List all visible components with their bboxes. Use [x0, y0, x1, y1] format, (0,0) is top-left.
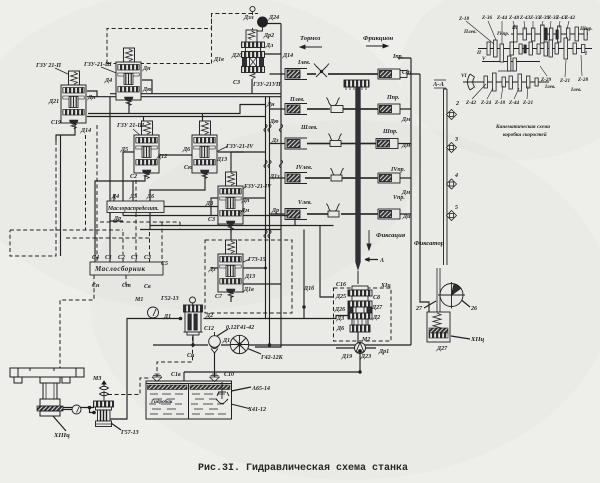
wire: valve U6 right ports to right bus — [264, 24, 281, 55]
svg-text:Др: Др — [271, 208, 279, 214]
cylinder row 3 left — [285, 138, 307, 149]
gear extra i — [509, 76, 512, 89]
gear z18a — [508, 56, 511, 71]
gear extra b — [537, 44, 540, 54]
svg-text:Z-21: Z-21 — [522, 100, 533, 106]
gear extra e — [584, 29, 587, 40]
svg-text:Св: Св — [144, 284, 151, 290]
wire: ladder line from valve V2 zone — [88, 105, 266, 114]
svg-text:Г57-13: Г57-13 — [120, 430, 139, 436]
svg-text:5: 5 — [455, 205, 458, 211]
wire: dashed drains to oil collector — [97, 125, 162, 262]
svg-text:С1в: С1в — [171, 372, 181, 378]
svg-text:Плев.: Плев. — [289, 97, 305, 103]
gear extra g — [519, 44, 522, 54]
valve U3 GZU-21-III — [134, 121, 159, 179]
junction dots — [88, 267, 362, 415]
wire: bed gauge stem — [63, 409, 72, 411]
svg-text:27: 27 — [415, 306, 423, 312]
svg-text:Д24: Д24 — [268, 15, 279, 21]
svg-text:Д14: Д14 — [282, 53, 293, 59]
row 3 coupler — [330, 141, 341, 147]
wire: M2 valve branches — [336, 348, 376, 372]
gear z21b — [573, 43, 576, 54]
svg-text:С8: С8 — [373, 295, 380, 301]
svg-text:Ш: Ш — [511, 25, 518, 31]
wire: valve U1 right port — [87, 91, 110, 97]
svg-text:Z-44: Z-44 — [508, 100, 519, 106]
svg-text:С12: С12 — [204, 326, 214, 332]
svg-text:Д6: Д6 — [146, 194, 154, 200]
svg-text:Рис.3I. Гидравлическая схема с: Рис.3I. Гидравлическая схема станка — [198, 463, 408, 474]
svg-text:Кинематическая схема: Кинематическая схема — [495, 124, 550, 130]
svg-text:Шлев.: Шлев. — [300, 125, 318, 131]
svg-text:Д27: Д27 — [436, 346, 448, 352]
gear z21a — [555, 43, 558, 54]
svg-text:Z-42: Z-42 — [465, 100, 476, 106]
svg-text:Др1: Др1 — [378, 349, 389, 355]
gear z18b — [502, 77, 505, 87]
wire: G73 valve top stem — [230, 226, 232, 241]
svg-text:Фиксатор: Фиксатор — [414, 240, 445, 247]
svg-text:С7: С7 — [215, 294, 223, 300]
row 2 fork — [327, 98, 340, 107]
wire: dashed Ct stub — [125, 275, 127, 287]
svg-text:Сю: Сю — [184, 165, 193, 171]
svg-text:Д6: Д6 — [336, 326, 344, 332]
svg-text:Дп: Дп — [241, 198, 250, 204]
svg-text:Дн: Дн — [266, 102, 275, 108]
svg-text:IVлев.: IVлев. — [295, 165, 313, 171]
svg-text:Д25: Д25 — [335, 294, 346, 300]
svg-text:Д3: Д3 — [336, 316, 344, 322]
svg-text:Д1: Д1 — [222, 338, 230, 344]
gear hub black a — [524, 45, 526, 53]
filter G42-12K — [230, 335, 248, 353]
cylinder row 3 right — [376, 139, 398, 149]
svg-text:А-А: А-А — [432, 81, 445, 88]
wire: valve name leaders — [55, 67, 250, 263]
svg-text:Д26: Д26 — [334, 307, 345, 313]
gear z36 — [494, 40, 498, 57]
selector shaft — [355, 87, 360, 284]
wire: dashed collector outlet — [60, 275, 94, 368]
svg-text:С2: С2 — [118, 255, 125, 261]
svg-text:Д1в: Д1в — [243, 287, 254, 293]
svg-text:Z-18: Z-18 — [458, 16, 469, 22]
A-A section shaft — [434, 80, 447, 265]
wire: left vertical bus pair down — [204, 97, 266, 319]
svg-text:Д6: Д6 — [182, 147, 190, 153]
svg-text:Сн: Сн — [92, 283, 100, 289]
svg-text:Д8: Д8 — [205, 201, 213, 207]
wire: valve U1 bottom drain — [56, 125, 75, 256]
svg-text:Д12: Д12 — [156, 154, 167, 160]
cylinder row 2 left — [285, 104, 307, 115]
wire: row2 rod — [307, 108, 411, 110]
gear z35 — [550, 28, 553, 40]
wire: relief valve drain — [192, 335, 194, 345]
svg-text:Дн: Дн — [142, 66, 151, 72]
fixer valve stack XI — [348, 286, 372, 332]
svg-text:Д27: Д27 — [371, 305, 383, 311]
float valve A65-14 — [216, 382, 229, 404]
gear z42c — [484, 76, 487, 88]
svg-text:Дп: Дп — [87, 95, 96, 101]
svg-text:С1: С1 — [131, 255, 138, 261]
M2 pilot valve — [355, 343, 366, 354]
svg-text:Плев.: Плев. — [463, 29, 477, 35]
svg-text:коробки скоростей: коробки скоростей — [503, 131, 547, 138]
wire: suction to tank — [214, 352, 216, 377]
svg-text:Д23: Д23 — [360, 354, 371, 360]
svg-text:Z-24: Z-24 — [480, 100, 491, 106]
wire: outer right vertical to fixer cylinder — [420, 74, 429, 312]
svg-text:С5: С5 — [161, 261, 168, 267]
svg-text:IVпр.: IVпр. — [390, 167, 406, 173]
svg-text:Д1з: Д1з — [269, 174, 280, 180]
gear z43a — [523, 28, 526, 40]
svg-text:А: А — [379, 258, 384, 264]
svg-text:XIц: XIц — [380, 283, 391, 289]
throttle M3 — [100, 381, 109, 401]
svg-text:Дэл: Дэл — [243, 15, 254, 21]
selector comb — [344, 80, 369, 90]
bevel gear pair — [468, 74, 475, 90]
valve U5 GZU-21-IV — [218, 172, 243, 230]
gear z48 — [514, 26, 518, 42]
wire: right return bus x281 — [255, 24, 281, 348]
wire: valve U3 left port down — [123, 152, 134, 216]
svg-text:Iлев.: Iлев. — [544, 84, 556, 90]
svg-text:Д5: Д5 — [120, 147, 128, 153]
wire: row4 rod — [305, 177, 411, 179]
svg-text:Z-21: Z-21 — [559, 78, 570, 84]
gear small x — [535, 78, 538, 86]
svg-text:Дм: Дм — [401, 143, 410, 149]
gear extra c — [549, 40, 552, 57]
wire: valve U5 top stem — [231, 152, 244, 172]
wire: ladder y225 double — [140, 226, 334, 230]
A-A detent node 4 — [447, 179, 457, 189]
wire: row connectors from bus — [270, 74, 286, 214]
svg-text:Д14: Д14 — [80, 128, 91, 134]
wire: check valve label leader — [217, 329, 228, 336]
wire: valve U4 right port to bus — [218, 151, 266, 153]
wire: G73 valve left port — [211, 268, 231, 302]
svg-text:Г52-13: Г52-13 — [160, 296, 179, 302]
row 5 coupler — [328, 211, 339, 217]
valve U4 GZU-21-IV — [192, 121, 217, 179]
pump G57-13 — [94, 401, 114, 427]
wire: filter label leader — [248, 349, 262, 355]
bed gauge — [72, 405, 81, 414]
svg-text:С1: С1 — [105, 255, 112, 261]
wire: pilot line to fixer stack — [266, 307, 349, 319]
svg-text:С2: С2 — [130, 174, 137, 180]
svg-text:Z-28: Z-28 — [577, 77, 588, 83]
wire: pump discharge — [111, 319, 183, 420]
wire: distributor bottom stub — [110, 213, 123, 222]
cam disc 26 — [437, 268, 465, 312]
svg-text:3: 3 — [454, 137, 458, 143]
wire: dashed box around fixer stack — [334, 288, 392, 341]
cylinder row 1 left — [285, 69, 307, 80]
svg-text:ГЗУ-21УП: ГЗУ-21УП — [252, 82, 281, 88]
wire: dashed pilot top-left box — [107, 14, 258, 64]
cylinder row 4 left — [285, 173, 307, 184]
svg-text:С3: С3 — [144, 255, 151, 261]
gear z42a — [567, 28, 570, 40]
wire: throttle stems — [103, 381, 105, 404]
svg-text:Vлев.: Vлев. — [298, 200, 312, 206]
wire: return line y372 — [184, 372, 360, 381]
wire: row1 rod end cap — [400, 71, 407, 78]
wire: valve U6 bottom to bus — [251, 79, 253, 94]
gearbox shaft VI — [463, 81, 549, 83]
svg-text:Ди: Ди — [402, 214, 411, 220]
wire: valve U5 right port to bus — [244, 197, 266, 199]
row 4 fork — [331, 168, 344, 177]
gearbox shaft IV short — [498, 70, 516, 72]
fixer cylinder XII — [427, 312, 450, 342]
svg-text:С10: С10 — [224, 372, 234, 378]
svg-text:Ст: Ст — [122, 283, 131, 289]
svg-text:М2: М2 — [361, 337, 370, 343]
svg-text:ГЗУ 21-Ш: ГЗУ 21-Ш — [116, 123, 144, 129]
wire: long feed line — [87, 116, 266, 118]
wire: vertical feed x110 — [109, 97, 111, 262]
svg-text:Iлев.: Iлев. — [297, 60, 311, 66]
svg-text:Z-18: Z-18 — [494, 100, 505, 106]
wire: distributor to valve U5 — [164, 207, 231, 234]
svg-text:XIIц: XIIц — [470, 336, 485, 343]
wire: dashed left drain loop — [10, 135, 123, 256]
wire: selector A arrow — [365, 258, 378, 261]
svg-text:Д1: Д1 — [163, 314, 171, 320]
gear extra f — [510, 42, 513, 55]
oil collector box — [90, 262, 163, 275]
svg-text:Др: Др — [113, 216, 121, 222]
relief valve G52-13 — [184, 297, 203, 335]
tank inlet funnel C1v — [152, 374, 162, 382]
oil distributor box — [107, 201, 164, 213]
wire: pump label leader — [111, 423, 121, 430]
gear z21c — [527, 76, 530, 88]
gear z43b — [558, 26, 561, 42]
valve U2 GZU-21-III — [116, 48, 141, 106]
wire: second vertical bus — [269, 97, 271, 345]
svg-text:Маслосборник: Маслосборник — [94, 265, 146, 273]
svg-text:Шпр.: Шпр. — [382, 129, 398, 135]
svg-text:Д2: Д2 — [205, 313, 213, 319]
svg-text:Г42-12К: Г42-12К — [260, 355, 284, 361]
gear extra a — [529, 42, 532, 55]
svg-text:Z-43: Z-43 — [519, 15, 530, 21]
svg-text:4: 4 — [454, 173, 458, 179]
wire: main pressure double bus horizontal — [110, 94, 281, 97]
wire: row3 rod — [307, 143, 411, 145]
wire: valve U3 to U4 link — [160, 154, 192, 156]
wire: frame right vertical — [398, 58, 411, 345]
wire: XII cylinder label leaders — [424, 298, 470, 339]
svg-text:Д20: Д20 — [231, 53, 242, 59]
wire: bed rod to pump — [52, 408, 95, 413]
svg-text:Дл: Дл — [265, 43, 273, 49]
valve U1 GZU-21-II — [61, 71, 86, 129]
svg-text:Д21: Д21 — [48, 99, 59, 105]
svg-text:Iпр.: Iпр. — [392, 54, 404, 60]
svg-text:Г73-15: Г73-15 — [247, 257, 266, 263]
valve U6 GZU-21-VII with solenoid — [242, 6, 268, 78]
wire: XIII cylinder leader — [53, 416, 66, 431]
row 5 fork — [327, 204, 340, 213]
svg-text:0,12Г41-42: 0,12Г41-42 — [226, 325, 254, 331]
wire: filter line y345 — [153, 344, 411, 346]
svg-text:Д4: Д4 — [111, 194, 119, 200]
svg-text:Дз: Дз — [208, 267, 216, 273]
machine bed — [10, 368, 84, 416]
svg-text:С19: С19 — [51, 120, 61, 126]
svg-text:Д4: Д4 — [104, 78, 112, 84]
wire: valve U4 bottom stem — [150, 175, 205, 230]
svg-text:Дм: Дм — [240, 208, 249, 214]
svg-text:Сдз: Сдз — [402, 69, 412, 76]
svg-text:Шпр.: Шпр. — [579, 26, 593, 32]
A-A detent node 2 — [447, 110, 457, 120]
svg-text:Д19: Д19 — [341, 354, 352, 360]
gear z44a — [500, 44, 504, 62]
tank inlet funnel C10 — [210, 374, 220, 382]
svg-text:2: 2 — [455, 101, 459, 107]
cylinder row 5 left — [285, 209, 307, 220]
row 4 coupler — [331, 175, 342, 181]
svg-text:Z-36: Z-36 — [481, 15, 492, 21]
wire: row5 rod — [307, 213, 411, 215]
wire: valve U2 right port — [142, 80, 152, 94]
gear z24b — [493, 73, 497, 91]
svg-text:Тормоз: Тормоз — [300, 35, 321, 42]
row 3 fork — [329, 134, 342, 143]
A-A detent node 5 — [447, 211, 457, 221]
svg-text:М3: М3 — [92, 376, 101, 382]
svg-text:ГЗУ-21-IV: ГЗУ-21-IV — [225, 144, 254, 150]
pressure gauge M1 — [148, 307, 159, 318]
svg-text:XIIIц: XIIIц — [53, 432, 70, 439]
svg-text:С4: С4 — [92, 255, 99, 261]
svg-text:Дю: Дю — [142, 87, 152, 93]
svg-text:Дм: Дм — [401, 117, 410, 123]
wire: dashed suction pump to tank — [108, 378, 150, 395]
svg-text:Д5: Д5 — [129, 194, 137, 200]
svg-text:ГЗУ 21-П: ГЗУ 21-П — [35, 63, 61, 69]
gear extra d — [575, 27, 578, 41]
gearbox shaft III — [511, 33, 588, 35]
wire: valve U5 left port — [211, 198, 218, 216]
gear hub black b — [556, 30, 558, 39]
svg-text:Д13: Д13 — [244, 274, 255, 280]
svg-text:Z-44: Z-44 — [496, 15, 507, 21]
wire: ladder y215 — [123, 216, 295, 226]
cylinder row 2 right — [378, 104, 400, 114]
check valve 0.12G41-42 — [209, 332, 221, 353]
svg-text:ГЗУ-21-Ш: ГЗУ-21-Ш — [83, 62, 112, 68]
gearbox shaft II — [478, 48, 592, 50]
svg-text:Д1б: Д1б — [303, 285, 315, 292]
svg-text:М1: М1 — [134, 297, 143, 303]
svg-text:А65-14: А65-14 — [251, 386, 270, 392]
wire: dashed ladder staircase — [66, 222, 180, 238]
wire: bus junction squiggles — [264, 124, 283, 238]
svg-text:Х41-12: Х41-12 — [247, 407, 266, 413]
wire: heavy piston rods — [305, 74, 378, 214]
svg-text:Д13: Д13 — [216, 157, 227, 163]
cylinder row 4 right — [378, 173, 400, 183]
gear hub black c — [545, 28, 547, 40]
gear z28 — [582, 45, 585, 53]
svg-text:С3: С3 — [233, 80, 240, 86]
svg-text:ГЗУ-21-IV: ГЗУ-21-IV — [243, 184, 272, 190]
arrows for brake/friction — [300, 44, 388, 250]
wire: distributor top stubs — [114, 181, 150, 201]
svg-text:IVпр.: IVпр. — [496, 31, 509, 37]
kinematic leader lines — [466, 21, 582, 99]
svg-text:Маслораспределит.: Маслораспределит. — [107, 205, 159, 212]
wire: dashed pilot line to U6 — [107, 14, 212, 64]
svg-text:Гидробак: Гидробак — [150, 398, 173, 405]
row 1 scissor fork — [314, 64, 329, 78]
svg-text:Дю: Дю — [269, 119, 279, 125]
svg-text:Сн: Сн — [187, 353, 195, 359]
COMPONENTS2 — [463, 34, 592, 82]
wire: spring feed drops — [144, 114, 203, 122]
svg-text:С16: С16 — [336, 282, 346, 288]
svg-text:Z-29: Z-29 — [540, 77, 551, 83]
wire: float label leaders — [224, 387, 251, 409]
gear z24 — [513, 58, 516, 71]
svg-text:Д2: Д2 — [372, 315, 380, 321]
svg-text:26: 26 — [470, 306, 477, 312]
cylinder row 1 right — [378, 69, 400, 79]
wire: dashed Sn drain to tank — [157, 330, 193, 377]
gear z44b — [518, 74, 522, 91]
wire: dashed box around G73 valve — [205, 240, 292, 313]
svg-text:Др2: Др2 — [263, 33, 274, 39]
gearbox shaft V — [482, 61, 540, 63]
svg-text:С3: С3 — [208, 217, 215, 223]
gear z39 — [541, 25, 545, 43]
svg-text:Фиксация: Фиксация — [376, 232, 406, 239]
wire: drop verticals to fixer box — [304, 226, 334, 308]
svg-text:V: V — [482, 56, 486, 62]
cylinder row 5 right — [378, 209, 400, 219]
gear extra h — [487, 42, 490, 55]
svg-text:Д1в: Д1в — [213, 57, 224, 63]
svg-text:Z-48: Z-48 — [508, 15, 519, 21]
wire: G73 valve right ports — [243, 268, 281, 284]
valve U7 G73-15 — [218, 240, 243, 298]
svg-text:Ппр.: Ппр. — [386, 95, 400, 101]
svg-text:Дз: Дз — [271, 138, 279, 144]
A-A detent node 3 — [447, 143, 457, 153]
tank body — [146, 381, 232, 419]
wire: valve U3 drain to collector — [95, 175, 145, 262]
wire: row1 rod — [307, 73, 420, 75]
svg-text:Iлев.: Iлев. — [570, 87, 582, 93]
gear z29 — [544, 42, 548, 56]
gear z33 — [532, 28, 535, 41]
row 2 coupler — [331, 106, 343, 113]
